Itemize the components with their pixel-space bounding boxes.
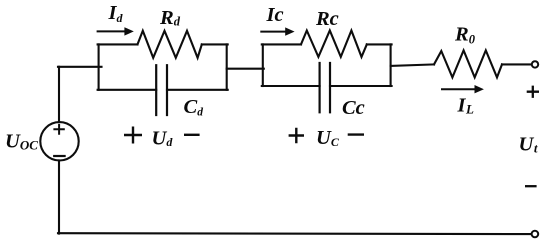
wire: source bottom stub to bottom rail [58, 160, 60, 233]
minus sign of Ud [184, 134, 200, 136]
wire: RC1 left branch [98, 44, 100, 89]
wire: RC1 bottom edge right segment [167, 89, 228, 91]
wire: RC1 to RC2 [227, 68, 264, 70]
voltage source U_OC [40, 122, 78, 160]
svg-text:IL: IL [457, 94, 474, 116]
svg-text:Rd: Rd [159, 7, 181, 29]
minus sign of UC [348, 133, 364, 135]
current arrow IL [441, 85, 484, 93]
wire: RC1 top edge left segment [98, 43, 138, 45]
wire: RC2 bottom edge left segment [262, 85, 320, 87]
wire: source top stub [58, 67, 60, 122]
svg-text:Ud: Ud [152, 127, 174, 149]
source plus sign [54, 125, 63, 134]
wire: RC2 right branch [390, 44, 392, 86]
resistor Rd zigzag [138, 31, 202, 58]
capacitor Cc plates [320, 63, 330, 112]
svg-text:Cd: Cd [184, 96, 204, 118]
svg-text:UC: UC [316, 127, 340, 149]
wire: bottom rail [58, 232, 532, 235]
wire: RC1 bottom edge left segment [98, 89, 157, 91]
source minus sign [54, 155, 64, 157]
resistor R0 zigzag [434, 50, 502, 77]
current arrow Id [97, 27, 134, 35]
svg-text:R0: R0 [454, 23, 476, 46]
svg-text:Ic: Ic [266, 4, 284, 26]
wire: RC2 top edge right segment [367, 43, 392, 45]
svg-text:Ut: Ut [519, 133, 538, 155]
wire: RC2 bottom edge right segment [330, 85, 392, 87]
terminal node: top right [532, 61, 538, 67]
wire: RC2 left branch [262, 44, 264, 86]
minus sign at output [525, 185, 537, 187]
capacitor Cd plates [156, 65, 167, 115]
wire: RC1 top edge right segment [202, 43, 228, 45]
plus sign of Ud [124, 127, 142, 144]
terminal node: bottom right [532, 231, 539, 238]
svg-text:Rc: Rc [315, 8, 339, 30]
svg-text:Cc: Cc [342, 97, 365, 119]
plus sign at output terminal [527, 86, 539, 98]
wire: R0 to top terminal [502, 63, 532, 65]
current arrow Ic [260, 27, 294, 35]
resistor Rc zigzag [301, 31, 367, 57]
wire: RC1 right branch [226, 44, 228, 89]
svg-text:Id: Id [108, 2, 124, 25]
wire: top-left corner horizontal [58, 66, 102, 68]
plus sign of UC [289, 128, 304, 144]
svg-text:UOC: UOC [5, 130, 38, 152]
wire: RC2 to R0 [391, 64, 434, 66]
wire: RC2 top edge left segment [262, 43, 301, 45]
